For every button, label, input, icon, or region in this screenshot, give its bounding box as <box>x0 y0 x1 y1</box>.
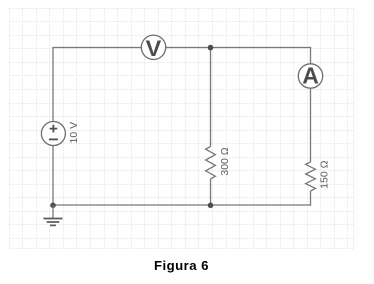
ammeter A <box>298 63 322 89</box>
resistor 150 ohm zigzag <box>306 162 316 191</box>
svg-text:A: A <box>302 63 319 89</box>
wire: ammeter down to resistor 150 ohm <box>310 88 312 162</box>
svg-text:150 Ω: 150 Ω <box>319 160 331 188</box>
resistor 300 ohm zigzag <box>206 147 216 180</box>
voltmeter V <box>141 35 165 61</box>
junction dot bottom left (ground node) <box>50 203 56 209</box>
svg-text:V: V <box>146 36 162 61</box>
voltage source 10 V <box>41 122 65 146</box>
svg-text:10 V: 10 V <box>68 122 80 144</box>
wire: bottom horizontal <box>52 204 311 206</box>
svg-text:300 Ω: 300 Ω <box>219 147 231 175</box>
wire: resistor 150 ohm to bottom-right corner <box>310 191 312 206</box>
wire: battery negative terminal down to ground node <box>52 145 54 205</box>
wire: battery positive terminal up to top-left corner <box>52 48 54 122</box>
junction dot bottom middle <box>208 203 214 209</box>
junction dot node A (top) <box>208 45 214 51</box>
wire: top-right corner down to ammeter <box>310 47 312 64</box>
ground <box>43 205 62 225</box>
wire: top horizontal (through voltmeter to top-right corner) <box>52 47 311 49</box>
wire: node A down to resistor 300 ohm <box>210 48 212 147</box>
caption Figura 6 <box>0 258 363 273</box>
wire: resistor 300 ohm to bottom node <box>210 179 212 206</box>
